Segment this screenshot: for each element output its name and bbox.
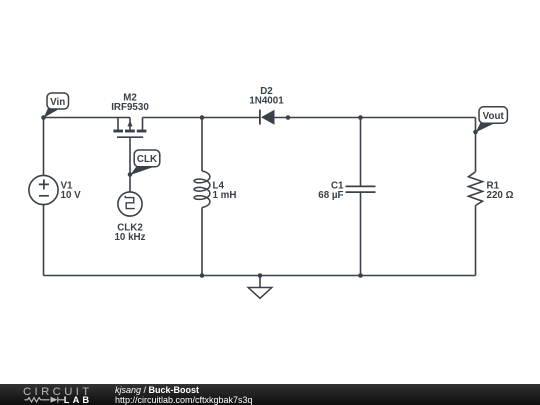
voltage source V1 (29, 175, 58, 204)
junction Vin node (41, 115, 46, 120)
svg-text:LAB: LAB (64, 395, 92, 405)
ground (248, 288, 272, 299)
junction CLK gate node (128, 172, 133, 177)
junction C1 bottom (358, 273, 363, 278)
junction L4 bottom (200, 273, 205, 278)
wire diode D2 to top-right corner (275, 117, 476, 119)
svg-text:1N4001: 1N4001 (249, 96, 284, 107)
svg-text:10 V: 10 V (61, 190, 82, 201)
label C1 (318, 180, 344, 201)
svg-text:Vout: Vout (483, 111, 505, 122)
junction L4 top (200, 115, 205, 120)
net flag CLK (130, 150, 160, 175)
inductor L4 (194, 171, 210, 208)
wire R1 bottom to bottom-right corner (475, 206, 477, 276)
footer text (115, 385, 253, 405)
label V1 value (61, 180, 82, 201)
junction after diode (286, 115, 291, 120)
wire M2 gate to CLK junction and CLK2 (129, 138, 131, 193)
CircuitLab logo (0, 384, 115, 405)
wire right rail down to R1 (475, 118, 477, 172)
label D2 (249, 86, 284, 106)
capacitor C1 (346, 186, 376, 192)
diode D2 (260, 110, 275, 125)
label M2 (111, 93, 149, 114)
resistor R1 (469, 172, 483, 206)
junction ground node (258, 273, 263, 278)
net flag Vout (476, 107, 508, 133)
svg-text:1 mH: 1 mH (213, 190, 237, 201)
junction Vout node (473, 130, 478, 135)
label R1 (487, 180, 514, 201)
wire C1 top lead (360, 118, 362, 187)
clock source CLK2 (118, 192, 142, 216)
svg-text:220 Ω: 220 Ω (487, 190, 514, 201)
wire bottom rail (44, 275, 476, 277)
wire L4 top lead (201, 118, 203, 172)
footer bar (0, 384, 540, 405)
label L4 (213, 180, 237, 201)
wire L4 bottom lead (201, 208, 203, 276)
wire C1 bottom lead (360, 192, 362, 275)
wire M2 drain to diode D2 cathode (143, 117, 260, 119)
wire left rail V1 bottom (43, 205, 45, 276)
svg-text:IRF9530: IRF9530 (111, 102, 149, 113)
transistor M2 PMOS (113, 118, 146, 138)
svg-text:10 kHz: 10 kHz (114, 232, 145, 243)
svg-text:Vin: Vin (50, 97, 65, 108)
svg-text:CLK: CLK (137, 154, 157, 165)
label CLK2 value (114, 223, 145, 244)
net flag Vin (44, 93, 69, 118)
svg-text:68 µF: 68 µF (318, 190, 343, 201)
wire top-left from Vin node to M2 source (44, 118, 131, 176)
wire ground stub (259, 276, 261, 288)
junction C1 top (358, 115, 363, 120)
